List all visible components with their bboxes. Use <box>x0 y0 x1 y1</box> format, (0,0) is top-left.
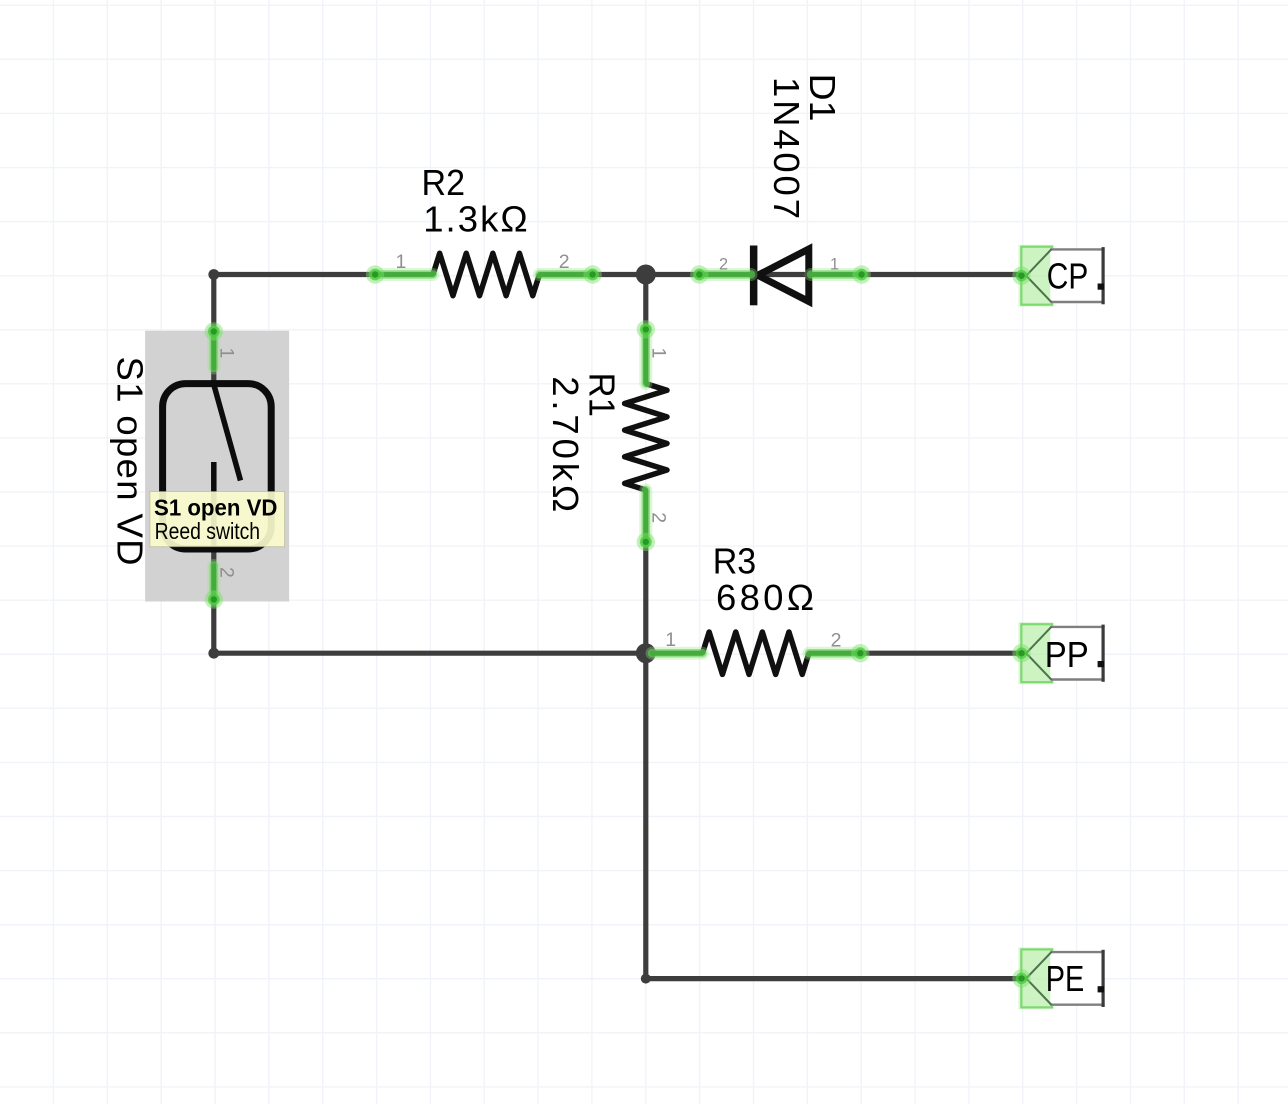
R1 pin 1 <box>637 320 655 383</box>
svg-text:R2: R2 <box>422 162 466 203</box>
svg-text:2: 2 <box>719 256 728 274</box>
S1 pin 1 <box>205 322 223 368</box>
svg-text:1: 1 <box>665 629 676 651</box>
svg-text:S1 open VD: S1 open VD <box>154 494 278 520</box>
svg-text:2: 2 <box>647 512 669 523</box>
corner dot at S1 bottom <box>208 648 219 659</box>
S1 pin 2 <box>205 566 223 609</box>
svg-text:680Ω: 680Ω <box>716 577 814 618</box>
svg-text:2: 2 <box>216 567 238 578</box>
svg-text:CP: CP <box>1047 255 1089 296</box>
net label PP <box>1012 622 1104 684</box>
diode D1 triangle <box>758 249 809 302</box>
R2 pin 1 <box>366 265 433 283</box>
wire top row left: corner A to R2 <box>214 272 433 277</box>
resistor R2 <box>433 253 539 295</box>
switch S1 lever <box>214 385 241 481</box>
svg-text:PP: PP <box>1045 634 1089 675</box>
corner dot D <box>641 974 651 984</box>
svg-text:R1: R1 <box>581 373 622 417</box>
D1 pin 2 <box>690 265 751 283</box>
junction C <box>636 643 656 663</box>
switch S1 selection highlight <box>145 331 289 602</box>
svg-text:1: 1 <box>647 348 669 359</box>
switch S1 fixed contact post <box>211 462 217 549</box>
wire corner D to PE <box>646 976 1027 981</box>
wire from corner A down to S1 pin 1 <box>211 275 216 385</box>
R3 pin 1 <box>652 647 703 660</box>
svg-text:PE: PE <box>1046 958 1085 999</box>
svg-text:1: 1 <box>396 251 407 273</box>
svg-text:Reed switch: Reed switch <box>155 518 261 544</box>
R1 pin 2 <box>637 490 655 551</box>
svg-text:1.3kΩ: 1.3kΩ <box>423 199 528 240</box>
tooltip S1 <box>150 492 285 547</box>
net label PE <box>1012 947 1104 1009</box>
junction B <box>636 265 656 285</box>
switch S1 capsule <box>163 384 272 549</box>
resistor R3 <box>703 632 809 674</box>
wire bottom row: S1 corner to junction C <box>214 651 703 656</box>
corner dot A <box>208 269 219 280</box>
svg-text:2: 2 <box>559 251 570 273</box>
wire junction B down to R1 <box>643 275 648 384</box>
wire top row right: R2 to CP through D1 <box>539 272 1026 277</box>
wire from S1 pin 2 down to bottom corner <box>211 549 216 653</box>
R3 pin 2 <box>809 644 870 662</box>
D1 pin 1 <box>811 265 871 283</box>
wire R1 to junction C and down to corner D <box>643 490 648 979</box>
svg-text:D1: D1 <box>802 74 843 122</box>
svg-text:R3: R3 <box>713 541 757 582</box>
resistor R1 <box>625 384 667 490</box>
svg-text:S1 open VD: S1 open VD <box>110 357 151 566</box>
net label CP <box>1012 245 1104 307</box>
wire R3 to PP <box>809 651 1027 656</box>
svg-text:2: 2 <box>831 630 842 652</box>
svg-text:1: 1 <box>830 256 839 274</box>
svg-text:1: 1 <box>216 348 238 359</box>
R2 pin 2 <box>539 265 601 283</box>
diode D1 cathode bar <box>750 246 758 306</box>
